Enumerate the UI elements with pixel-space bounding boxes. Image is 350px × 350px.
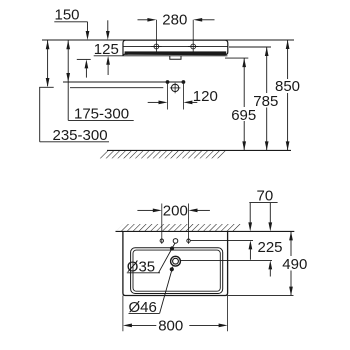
dimension 235-300 line xyxy=(46,40,50,87)
dimension 70 bottom arrow (up onto hole centerline) xyxy=(249,240,253,259)
dimension 175-300 line xyxy=(66,40,70,120)
dimension 175-300 underline xyxy=(68,119,134,121)
basin inner line xyxy=(123,46,228,48)
label Ø46 underline xyxy=(129,312,160,314)
drain crosshair xyxy=(170,83,181,94)
basin body (side view outline) xyxy=(123,40,228,55)
dimension 800 extension line left xyxy=(122,296,124,332)
dimension 280 extension line left xyxy=(155,20,157,52)
dimension 695 line xyxy=(242,58,246,150)
wall face line xyxy=(116,230,295,232)
drain tab below basin xyxy=(170,56,181,59)
dimension 235-300 underline xyxy=(40,141,109,143)
dimension 70 drop right (down onto wall) xyxy=(268,203,272,232)
bowl outer edge xyxy=(131,248,223,294)
dimension 120 left arrow xyxy=(148,101,168,105)
faucet hole crosshair left xyxy=(151,44,162,49)
svg-text:125: 125 xyxy=(94,41,119,58)
dimension 200 left arrow xyxy=(137,209,161,213)
dimension 800 extension line right xyxy=(227,296,229,332)
svg-text:120: 120 xyxy=(193,88,218,105)
drain centerline extension xyxy=(181,259,272,261)
dimension 150 leader xyxy=(54,21,87,23)
under-basin thin line xyxy=(94,55,228,57)
drain outer circle xyxy=(171,256,181,266)
bowl inner edge xyxy=(133,250,220,291)
dimension 70 drop left (down onto wall) xyxy=(248,203,252,232)
dimension 150 lower terminator line xyxy=(77,58,91,60)
dimension 235-300 drop leader xyxy=(39,87,41,142)
svg-text:70: 70 xyxy=(257,188,274,205)
basin bottom thick band xyxy=(125,51,227,54)
floor line xyxy=(107,149,291,151)
dimension 785 extension line xyxy=(229,46,271,48)
label Ø46 leader dot xyxy=(170,267,174,271)
dimension 125 upper arrow (down onto rim line) xyxy=(106,20,110,40)
svg-text:200: 200 xyxy=(163,202,188,219)
dimension 280 left arrow xyxy=(138,18,157,22)
svg-text:800: 800 xyxy=(158,318,183,335)
dimension 120 right arrow xyxy=(183,101,197,105)
floor hatching xyxy=(100,151,230,159)
dimension 280 right arrow xyxy=(193,18,214,22)
top reference line (basin rim level) xyxy=(42,39,294,41)
dimension 225 bottom arrow (up onto drain centerline) xyxy=(268,260,272,276)
label Ø35 leader dot xyxy=(170,246,174,250)
dimension 695 extension line xyxy=(225,57,248,59)
dimension 785 line xyxy=(265,47,269,150)
svg-text:850: 850 xyxy=(275,78,300,95)
dimension 800 line left with arrow xyxy=(123,324,156,328)
svg-text:280: 280 xyxy=(162,12,187,29)
supply connection dot left xyxy=(166,80,170,84)
label Ø35 underline xyxy=(127,272,160,274)
dimension 800 line right with arrow xyxy=(189,324,227,328)
basin front extension line xyxy=(228,294,294,296)
svg-text:150: 150 xyxy=(55,7,80,24)
svg-text:225: 225 xyxy=(258,239,283,256)
label Ø35 leader xyxy=(159,243,175,272)
drain inner circle xyxy=(173,258,179,264)
wall hatching xyxy=(116,224,242,231)
deck hole left xyxy=(160,239,163,242)
supply connection dot right xyxy=(182,80,186,84)
dimension 70 leader xyxy=(249,202,277,204)
basin outline (plan) xyxy=(123,231,228,295)
dimension 490 line xyxy=(289,231,293,295)
svg-text:490: 490 xyxy=(282,256,307,273)
label Ø46 leader xyxy=(160,267,173,314)
dimension 120 extension lines xyxy=(167,84,169,110)
dimension 235-300 terminator line xyxy=(39,86,53,88)
dimension 125 lower arrow (up onto under-basin line) xyxy=(106,56,110,75)
dimension 280 extension line right xyxy=(192,20,194,52)
dimension 200 extension lines xyxy=(161,204,163,244)
dimension 850 line xyxy=(286,40,290,150)
dimension 150 lower arrow (up onto terminator) xyxy=(85,59,89,77)
drain centerline xyxy=(70,87,163,89)
deck hole center (faucet) xyxy=(173,239,178,244)
supply connection centerline xyxy=(63,81,183,83)
faucet hole crosshair right xyxy=(188,44,199,49)
deck hole right xyxy=(187,239,190,242)
dimension 200 right arrow xyxy=(189,209,210,213)
faucet hole centerline extension xyxy=(190,239,253,241)
svg-text:785: 785 xyxy=(253,93,278,110)
dimension 150 upper arrow (down onto rim line) xyxy=(86,22,90,40)
